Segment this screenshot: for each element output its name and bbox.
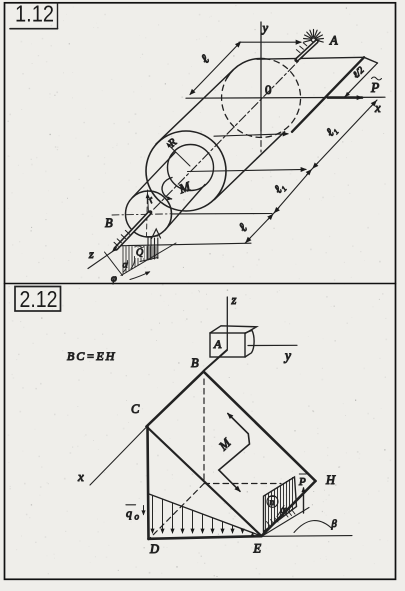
x line through O (186, 97, 385, 98)
label box 2.12 (15, 287, 61, 312)
rod arrowhead (113, 248, 117, 252)
dimension arrow l top-left (190, 42, 241, 95)
edge B-C (147, 372, 204, 427)
B bracket post (147, 237, 149, 261)
svg-text:ℓ: ℓ (198, 51, 213, 66)
svg-text:n: n (270, 498, 275, 508)
small cylinder end circle (126, 191, 172, 237)
svg-text:ℓ: ℓ (235, 220, 250, 235)
axis y vertical (260, 22, 262, 131)
cube right face (245, 330, 254, 357)
svg-text:z: z (88, 247, 94, 261)
svg-text:P: P (370, 80, 379, 95)
small cylinder upper silhouette (132, 152, 175, 197)
force P arrow fig2 (303, 488, 305, 513)
support A rod (297, 42, 317, 61)
big cylinder end circle (146, 131, 226, 211)
edge C-D (148, 427, 149, 540)
circle at O solid upper arc (227, 58, 265, 78)
label r (146, 194, 156, 206)
svg-text:E: E (253, 542, 262, 556)
svg-text:y: y (261, 21, 269, 35)
circled n normal (267, 496, 278, 508)
dashed line to P (204, 483, 281, 485)
phi rotation arrow (130, 272, 150, 280)
small q0 arrow (143, 506, 145, 515)
bracket strip bottom edge (140, 258, 158, 262)
label l1 lower (271, 180, 287, 196)
svg-text:Q: Q (136, 248, 144, 259)
dimension horizontal line to support A (239, 41, 301, 43)
edge E-H (262, 481, 316, 536)
label l (198, 51, 213, 66)
label M (176, 178, 193, 197)
circle at O dashed rest (222, 59, 301, 138)
svg-text:BC=EH: BC=EH (67, 349, 116, 363)
main axis A-to-B dash-dot (150, 40, 319, 213)
svg-text:x: x (77, 469, 84, 484)
cube front face (210, 333, 245, 357)
wedge hatching (123, 246, 156, 274)
tick line 2 (172, 213, 272, 215)
label l chain (235, 220, 250, 235)
plate corner cap (364, 57, 378, 63)
big cylinder inner junction circle (168, 145, 214, 191)
z axis (88, 252, 113, 269)
alpha arc (131, 257, 135, 269)
label l1 upper (323, 123, 339, 139)
plate top edge (257, 57, 364, 59)
small circle vertical centerline (147, 190, 148, 237)
angle line b (105, 252, 123, 276)
divider line between figures (5, 283, 396, 285)
svg-text:A: A (213, 337, 222, 351)
big cylinder upper silhouette (156, 70, 233, 144)
x axis fig2 (90, 427, 147, 485)
svg-text:x: x (374, 101, 381, 115)
chain arrowheads (371, 101, 376, 107)
cube top face (210, 326, 257, 334)
axis y fig2 (248, 344, 297, 346)
radius r arrow (148, 194, 149, 214)
svg-text:M: M (176, 178, 193, 197)
support A hatching fan (304, 30, 324, 43)
svg-text:B: B (105, 216, 113, 230)
svg-text:M: M (216, 435, 234, 453)
chain dimension line (245, 100, 377, 243)
edge D-E (149, 536, 262, 539)
beta base line (263, 535, 353, 538)
Q arrowhead open (152, 229, 161, 239)
svg-text:B: B (191, 356, 199, 370)
svg-text:D: D (149, 542, 159, 556)
dashed line to D (150, 484, 204, 539)
svg-text:ℓ₁: ℓ₁ (323, 123, 339, 139)
phi arc (124, 261, 128, 273)
moment M arc arrow (162, 178, 172, 199)
moment M zigzag arrow (219, 414, 250, 492)
svg-text:z: z (231, 293, 237, 307)
white gap for Q label (134, 248, 144, 259)
distributed load envelope (149, 494, 260, 536)
tick line T0 to corner (214, 134, 288, 136)
support A rod hatch (296, 50, 300, 53)
thick rod at B (116, 213, 150, 249)
small cylinder lower silhouette (165, 185, 205, 231)
svg-text:H: H (325, 473, 336, 487)
label box 1.12 (57, 3, 59, 29)
svg-text:C: C (131, 402, 140, 416)
edge B-H (204, 372, 316, 482)
angle alpha arc fig2 (277, 506, 284, 517)
arrowhead at P tail (346, 92, 351, 97)
beta upper line (263, 508, 309, 536)
svg-text:0: 0 (265, 82, 272, 97)
svg-text:2.12: 2.12 (20, 286, 58, 312)
big cylinder lower silhouette (215, 132, 285, 200)
svg-text:β: β (331, 519, 338, 530)
svg-text:o: o (135, 512, 140, 522)
beta arc (294, 521, 333, 533)
svg-text:A: A (329, 34, 338, 48)
hatched plane at E (264, 477, 297, 532)
svg-text:ℓ₁: ℓ₁ (271, 180, 287, 196)
B bracket top tick (147, 235, 158, 238)
angle line a (121, 243, 176, 276)
l/2 offset diagonal (344, 63, 378, 98)
B support hatching (114, 230, 130, 246)
label M fig2 (216, 435, 234, 453)
label R (165, 136, 179, 150)
support A hinge circle (312, 38, 316, 42)
svg-text:q: q (126, 506, 132, 520)
svg-text:α: α (281, 505, 287, 516)
svg-text:P: P (298, 476, 306, 488)
small circle horizontal centerline (112, 214, 172, 215)
plate right edge (292, 57, 364, 132)
Q force arrow shaft (154, 238, 156, 259)
tick line 1 (188, 169, 307, 171)
radius R arrow (167, 144, 190, 167)
edge C-E (147, 427, 262, 536)
edge B to origin (204, 350, 227, 371)
dashed vertical from B (203, 379, 205, 484)
force P arrow (328, 96, 362, 99)
tick line 3 (117, 243, 251, 246)
axis z fig2 (226, 297, 228, 349)
alpha hatch strokes (267, 522, 271, 527)
label l/2 (352, 65, 367, 80)
load arrows (153, 496, 253, 533)
svg-text:φ: φ (111, 274, 117, 285)
svg-text:1.12: 1.12 (15, 1, 54, 27)
svg-text:y: y (283, 348, 291, 363)
